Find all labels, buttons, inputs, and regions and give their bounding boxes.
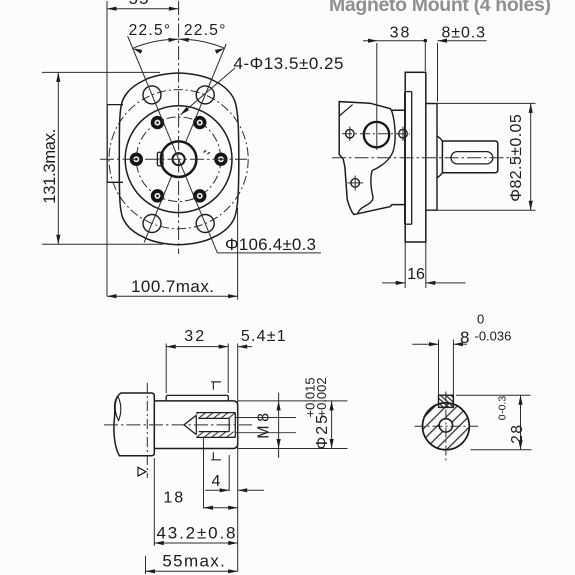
- svg-text:131.3max.: 131.3max.: [41, 129, 59, 204]
- svg-text:8±0.3: 8±0.3: [442, 25, 486, 42]
- svg-text:55max.: 55max.: [162, 552, 224, 571]
- svg-text:18: 18: [163, 490, 185, 507]
- svg-text:32: 32: [184, 328, 206, 345]
- svg-text:8: 8: [460, 328, 469, 347]
- svg-text:-0.3: -0.3: [497, 396, 509, 414]
- svg-text:16: 16: [407, 266, 425, 283]
- svg-text:43.2±0.8: 43.2±0.8: [157, 523, 236, 542]
- svg-text:22.5°: 22.5°: [129, 22, 172, 39]
- svg-text:38: 38: [390, 25, 412, 42]
- svg-text:4: 4: [212, 473, 221, 490]
- svg-text:+0.002: +0.002: [314, 377, 329, 417]
- svg-text:4-Φ13.5±0.25: 4-Φ13.5±0.25: [234, 54, 344, 73]
- svg-text:28: 28: [509, 424, 526, 444]
- svg-text:100.7max.: 100.7max.: [131, 277, 214, 296]
- svg-text:55: 55: [129, 0, 150, 8]
- svg-text:-0.036: -0.036: [475, 329, 512, 344]
- svg-text:M8: M8: [256, 409, 273, 438]
- svg-text:5.4±1: 5.4±1: [241, 328, 287, 345]
- svg-text:Φ82.5±0.05: Φ82.5±0.05: [508, 114, 525, 202]
- svg-text:0: 0: [497, 414, 509, 420]
- svg-text:22.5°: 22.5°: [184, 22, 227, 39]
- svg-text:0: 0: [477, 312, 484, 327]
- svg-text:Magneto Mount (4 holes): Magneto Mount (4 holes): [329, 0, 551, 16]
- svg-text:Φ106.4±0.3: Φ106.4±0.3: [225, 235, 316, 254]
